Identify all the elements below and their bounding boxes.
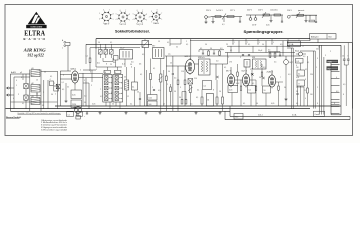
svg-text:50: 50 [51, 94, 53, 96]
svg-text:3: 3 [43, 92, 44, 94]
svg-text:6A8 G: 6A8 G [71, 68, 77, 71]
svg-text:jævnstr.: jævnstr. [297, 9, 305, 12]
svg-text:25Z6: 25Z6 [72, 104, 76, 106]
svg-text:25: 25 [226, 44, 228, 46]
svg-text:Sikr.: Sikr. [235, 116, 239, 119]
svg-text:A2: A2 [32, 82, 34, 85]
svg-text:0,02: 0,02 [149, 98, 152, 100]
svg-text:0,3: 0,3 [263, 67, 265, 69]
svg-text:0,1: 0,1 [167, 42, 169, 44]
svg-text:127 V: 127 V [230, 10, 236, 12]
svg-text:2: 2 [54, 83, 55, 85]
svg-text:osc.: osc. [168, 54, 172, 56]
svg-text:4: 4 [334, 103, 335, 105]
svg-text:Skala: Skala [295, 51, 299, 53]
svg-text:9: 9 [111, 92, 112, 94]
svg-text:15: 15 [36, 80, 38, 82]
svg-text:0,1: 0,1 [224, 67, 226, 69]
svg-text:1: 1 [152, 87, 153, 89]
svg-text:0,1: 0,1 [230, 50, 232, 52]
svg-text:5: 5 [96, 69, 97, 71]
svg-text:0,5: 0,5 [174, 78, 176, 80]
svg-text:50: 50 [210, 48, 212, 50]
svg-text:15: 15 [105, 48, 107, 50]
svg-text:16: 16 [342, 56, 344, 58]
svg-text:5: 5 [250, 69, 251, 71]
svg-text:2: 2 [167, 84, 168, 86]
svg-text:50: 50 [98, 42, 100, 44]
svg-text:220: 220 [316, 49, 319, 51]
svg-text:G: G [122, 17, 124, 19]
svg-text:0,5: 0,5 [280, 44, 282, 46]
svg-text:456 kc/s: 456 kc/s [198, 57, 205, 59]
svg-text:4: 4 [63, 75, 64, 77]
svg-text:Spændingsgrupper.: Spændingsgrupper. [244, 30, 284, 34]
svg-text:8: 8 [348, 56, 349, 58]
svg-text:7: 7 [280, 77, 281, 79]
svg-text:0,3: 0,3 [303, 56, 305, 58]
svg-text:0,1: 0,1 [86, 56, 89, 58]
svg-text:2x0,1: 2x0,1 [258, 114, 263, 116]
svg-text:10: 10 [264, 90, 266, 92]
svg-text:50: 50 [174, 91, 176, 93]
svg-text:6K7 G: 6K7 G [120, 24, 126, 26]
svg-text:0,1: 0,1 [62, 89, 64, 91]
svg-text:0,1: 0,1 [296, 103, 298, 105]
svg-text:0,05: 0,05 [229, 90, 232, 92]
svg-text:0,1: 0,1 [50, 76, 52, 78]
svg-text:Afbryder: Afbryder [311, 36, 319, 39]
svg-text:6Q7: 6Q7 [290, 62, 293, 64]
svg-text:R·A·D·I·O: R·A·D·I·O [23, 37, 46, 41]
svg-text:220: 220 [13, 72, 16, 74]
svg-text:912 og 922: 912 og 922 [28, 53, 44, 57]
svg-text:0,1: 0,1 [200, 48, 202, 50]
svg-text:2,5 A: 2,5 A [289, 43, 294, 46]
svg-text:6Q7 G: 6Q7 G [242, 71, 248, 73]
svg-text:0,1: 0,1 [62, 82, 64, 84]
svg-text:25 W: 25 W [252, 25, 256, 27]
svg-text:6A8 G: 6A8 G [185, 55, 191, 58]
svg-text:0,1: 0,1 [110, 42, 112, 44]
svg-text:8: 8 [343, 94, 344, 96]
svg-text:A3: A3 [32, 95, 34, 98]
svg-text:0,1: 0,1 [248, 44, 250, 46]
svg-text:50: 50 [262, 44, 264, 46]
svg-text:0,1: 0,1 [186, 44, 188, 46]
svg-text:G: G [106, 16, 108, 18]
svg-text:0,05: 0,05 [271, 103, 274, 105]
svg-text:3: 3 [91, 85, 92, 87]
svg-text:0,1: 0,1 [153, 68, 155, 70]
svg-text:6: 6 [90, 72, 91, 74]
svg-text:25A6 G: 25A6 G [267, 71, 274, 74]
svg-text:0,5: 0,5 [274, 62, 276, 64]
svg-text:Net: Net [329, 36, 333, 39]
svg-text:1: 1 [228, 57, 229, 59]
svg-text:25: 25 [304, 90, 306, 92]
svg-text:4: 4 [305, 98, 306, 100]
svg-text:25: 25 [302, 46, 304, 48]
svg-text:2: 2 [317, 87, 318, 89]
svg-text:50: 50 [44, 72, 46, 74]
svg-text:pF: pF [20, 72, 22, 74]
svg-text:8: 8 [305, 79, 306, 81]
svg-text:50: 50 [205, 44, 207, 46]
svg-text:0,2: 0,2 [100, 96, 102, 98]
svg-text:3: 3 [21, 77, 22, 79]
svg-text:2: 2 [240, 57, 241, 59]
svg-text:50: 50 [176, 47, 178, 49]
svg-text:0,05: 0,05 [92, 104, 95, 106]
svg-text:0,1: 0,1 [140, 74, 142, 76]
svg-text:+: + [84, 116, 85, 118]
svg-text:0,1: 0,1 [222, 24, 225, 26]
svg-text:0,1: 0,1 [204, 86, 207, 88]
svg-text:4: 4 [50, 79, 51, 81]
svg-text:220 V: 220 V [206, 10, 212, 12]
svg-text:5: 5 [80, 70, 81, 72]
svg-text:50: 50 [124, 77, 126, 79]
svg-text:25: 25 [110, 64, 112, 66]
svg-text:ELTRA RADIO: ELTRA RADIO [31, 26, 43, 29]
svg-text:0,3: 0,3 [220, 48, 222, 50]
svg-text:0,05: 0,05 [266, 25, 270, 27]
svg-text:0,1: 0,1 [305, 69, 307, 71]
svg-text:110 V: 110 V [287, 10, 293, 12]
svg-text:0,1: 0,1 [252, 83, 254, 85]
svg-text:12: 12 [127, 96, 129, 98]
svg-text:4: 4 [232, 75, 233, 77]
svg-text:6: 6 [13, 98, 14, 100]
svg-text:50: 50 [168, 71, 170, 73]
svg-text:3: 3 [270, 57, 271, 59]
svg-text:7: 7 [100, 89, 101, 91]
svg-text:0,5: 0,5 [343, 84, 345, 86]
svg-text:3: 3 [180, 87, 181, 89]
svg-text:L: L [115, 72, 116, 74]
svg-text:8: 8 [317, 103, 318, 105]
svg-text:2: 2 [330, 51, 331, 53]
svg-text:220: 220 [310, 74, 313, 76]
svg-text:1: 1 [316, 67, 317, 69]
svg-text:A1: A1 [32, 67, 34, 70]
svg-text:8: 8 [213, 90, 214, 92]
svg-text:220 V: 220 V [247, 9, 253, 11]
svg-text:0,5: 0,5 [158, 90, 160, 92]
svg-text:4: 4 [98, 48, 99, 50]
svg-text:2: 2 [186, 41, 187, 43]
svg-text:0,1: 0,1 [298, 73, 300, 75]
svg-text:0,05: 0,05 [72, 95, 76, 97]
svg-text:456: 456 [252, 57, 255, 59]
svg-text:0,1: 0,1 [130, 104, 132, 106]
svg-text:Sokkelforbindelser.: Sokkelforbindelser. [115, 30, 150, 34]
svg-text:2x110 V: 2x110 V [216, 10, 224, 12]
svg-text:0,1: 0,1 [132, 87, 134, 89]
svg-text:0,1: 0,1 [268, 77, 270, 79]
svg-text:0,5 A: 0,5 A [292, 113, 297, 116]
svg-text:0,1: 0,1 [298, 40, 300, 42]
svg-text:25: 25 [163, 104, 165, 106]
svg-text:6,3: 6,3 [336, 91, 338, 93]
svg-text:0,5: 0,5 [190, 104, 192, 106]
svg-text:0,1: 0,1 [307, 62, 309, 64]
svg-text:110: 110 [310, 94, 313, 96]
svg-text:4: 4 [16, 80, 17, 82]
svg-text:6A8 G: 6A8 G [104, 23, 110, 26]
svg-text:6,3: 6,3 [297, 61, 299, 63]
svg-text:50: 50 [179, 97, 181, 99]
svg-text:0,1: 0,1 [249, 90, 251, 92]
svg-text:vekselstr.: vekselstr. [270, 8, 278, 11]
svg-text:1: 1 [16, 85, 17, 87]
svg-text:5: 5 [84, 80, 85, 82]
svg-text:50: 50 [284, 87, 286, 89]
svg-text:6K7: 6K7 [152, 46, 155, 48]
svg-text:2: 2 [55, 94, 56, 96]
svg-text:0,05: 0,05 [296, 77, 299, 79]
svg-text:Omsk.: Omsk. [315, 114, 321, 116]
svg-text:0,1: 0,1 [197, 90, 199, 92]
svg-text:16: 16 [219, 91, 221, 93]
svg-text:0,3: 0,3 [288, 74, 290, 76]
svg-text:4: 4 [336, 77, 337, 79]
svg-text:110: 110 [296, 67, 299, 69]
svg-text:0,5: 0,5 [268, 50, 270, 52]
svg-text:50: 50 [112, 104, 114, 106]
svg-text:6Q7 G: 6Q7 G [137, 24, 143, 26]
svg-text:0,1: 0,1 [22, 103, 24, 105]
svg-text:50: 50 [256, 103, 258, 105]
svg-text:0,1: 0,1 [142, 54, 144, 56]
svg-text:5: 5 [248, 75, 249, 77]
svg-text:0,02: 0,02 [236, 83, 239, 85]
svg-text:6: 6 [296, 65, 297, 67]
svg-text:110 V: 110 V [258, 9, 264, 11]
svg-text:0,1: 0,1 [196, 97, 198, 99]
svg-text:0,1: 0,1 [318, 47, 320, 49]
svg-text:25A6 G: 25A6 G [153, 22, 160, 25]
svg-text:G: G [155, 16, 157, 18]
svg-text:50: 50 [84, 102, 86, 104]
svg-text:50: 50 [259, 77, 261, 79]
svg-text:15: 15 [158, 41, 160, 43]
svg-text:0,3: 0,3 [84, 96, 86, 98]
svg-text:50: 50 [42, 105, 44, 107]
svg-text:50: 50 [67, 87, 69, 89]
svg-text:0,3: 0,3 [216, 61, 218, 63]
svg-text:20: 20 [137, 92, 139, 94]
svg-text:5: 5 [317, 58, 318, 60]
svg-text:0,1: 0,1 [243, 103, 245, 105]
svg-text:2: 2 [18, 94, 19, 96]
svg-text:25: 25 [170, 63, 172, 65]
svg-text:50 pF: 50 pF [258, 50, 262, 52]
svg-text:8: 8 [299, 83, 300, 85]
svg-text:500: 500 [149, 104, 152, 106]
svg-text:3: 3 [325, 55, 326, 57]
svg-text:AIR KING: AIR KING [23, 48, 46, 53]
svg-text:0,1: 0,1 [68, 114, 70, 116]
svg-text:G: G [139, 17, 141, 19]
svg-text:16: 16 [207, 100, 209, 102]
